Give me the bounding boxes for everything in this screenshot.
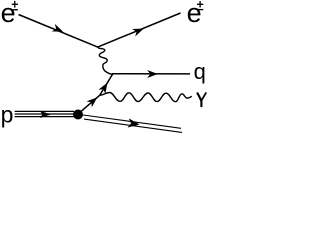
wire proton triple line top xyxy=(15,110,74,112)
photon propagator (virtual photon wavy line) xyxy=(98,47,114,74)
wire proton triple line bottom xyxy=(15,116,74,118)
label ± superscript incoming lepton (custom glyph) xyxy=(12,1,18,10)
svg-text:q: q xyxy=(194,59,206,84)
label γ radiated photon (custom glyph) xyxy=(198,93,206,106)
radiated photon gamma wavy line xyxy=(100,93,192,102)
wire proton triple line middle xyxy=(15,113,76,115)
label ± superscript scattered lepton (custom glyph) xyxy=(197,1,203,10)
arrowhead on scattered electron xyxy=(133,29,143,36)
arrowhead on proton line xyxy=(40,111,50,117)
arrowhead on outgoing quark xyxy=(148,71,157,78)
wire quark line from gamma vertex to photon vertex xyxy=(100,74,113,96)
wire incoming electron line xyxy=(19,15,98,48)
arrowhead on incoming electron xyxy=(53,25,63,32)
wire outgoing quark line xyxy=(113,73,190,75)
wire proton remnant lower line xyxy=(84,119,182,132)
arrowhead on proton remnant xyxy=(128,119,139,127)
arrowhead on quark segment B xyxy=(99,83,107,92)
svg-text:p: p xyxy=(1,102,14,128)
wire quark line from blob to gamma vertex xyxy=(81,95,100,111)
arrowhead on quark segment A xyxy=(88,98,97,106)
blob vertex (proton-quark interaction blob) xyxy=(73,110,83,120)
wire proton remnant upper line xyxy=(83,115,181,128)
wire scattered electron line xyxy=(98,13,181,47)
